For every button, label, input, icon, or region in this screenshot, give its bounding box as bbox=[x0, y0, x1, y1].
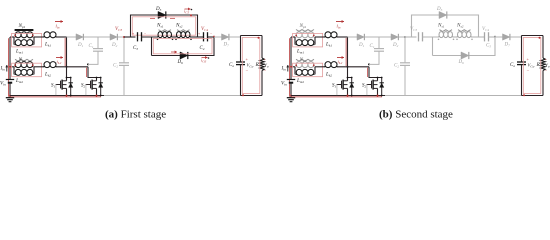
svg-text:D2: D2 bbox=[111, 43, 118, 48]
wire: C4 to node Y bbox=[489, 36, 496, 38]
current arrow I_in bbox=[287, 65, 289, 72]
svg-text:Co: Co bbox=[229, 63, 234, 68]
secondary winding Ns1 bbox=[440, 30, 453, 32]
wire: phase-2 row to S2 bbox=[337, 66, 369, 68]
wire: ground rail (active part) bbox=[291, 95, 385, 97]
wire: D7 to load bbox=[510, 36, 521, 38]
transistor S1 body diode bbox=[67, 77, 71, 79]
wire: load box bottom bbox=[241, 95, 263, 97]
output capacitor Co bbox=[240, 36, 242, 62]
capacitor C3 bbox=[418, 32, 420, 41]
current loop around N1/L1 bbox=[293, 33, 323, 47]
secondary winding Ns1 bbox=[159, 30, 172, 32]
svg-text:(a) First stage: (a) First stage bbox=[105, 109, 166, 121]
svg-text:C4: C4 bbox=[200, 46, 205, 51]
transistor S2 gate lead bbox=[86, 84, 91, 86]
svg-text:+: + bbox=[132, 32, 134, 36]
diode D6 bbox=[461, 52, 469, 59]
wire: phase-2 row start bbox=[10, 66, 14, 68]
output capacitor Co bbox=[521, 36, 523, 62]
node Y bbox=[494, 36, 496, 38]
wire: D2 to node X bbox=[118, 36, 124, 38]
ground bbox=[9, 96, 11, 98]
leakage inductor Lk1 bbox=[44, 32, 50, 38]
svg-text:C2: C2 bbox=[113, 64, 118, 69]
svg-text:VC3: VC3 bbox=[115, 27, 122, 32]
transistor S1 symbol bbox=[60, 81, 62, 89]
transistor S2 gate lead bbox=[367, 84, 372, 86]
lower cell box wires bbox=[152, 37, 215, 56]
wire: phase-1 node to D1 bbox=[67, 36, 77, 38]
wire: node X to C3 bbox=[124, 36, 136, 38]
wire: input left vertical bbox=[290, 37, 292, 79]
magnetic core (dashed) of N1 bbox=[296, 30, 314, 32]
svg-text:−: − bbox=[144, 32, 146, 36]
capacitor C1 bbox=[97, 37, 99, 48]
svg-text:D7: D7 bbox=[504, 43, 511, 48]
wire: phase-2 to leakage inductor bbox=[34, 66, 44, 68]
voltage source V_in battery bbox=[287, 79, 295, 81]
svg-text:D6: D6 bbox=[177, 60, 184, 65]
leakage inductor Lk1 bbox=[325, 32, 331, 38]
red marks near D6 bbox=[171, 51, 177, 53]
wire: phase-1 to leakage inductor bbox=[315, 36, 325, 38]
svg-text:C1: C1 bbox=[89, 44, 94, 49]
magnetic core bar of N1 bbox=[15, 29, 34, 31]
svg-text:Iin: Iin bbox=[0, 67, 5, 72]
secondary winding Ns2 bbox=[458, 30, 471, 32]
current arrow i_in bbox=[55, 21, 63, 23]
wire: phase-2 row to S2 bbox=[56, 66, 88, 68]
svg-text:C3: C3 bbox=[133, 46, 138, 51]
svg-text:Iin: Iin bbox=[281, 67, 287, 72]
current arrow i_L2 bbox=[337, 57, 344, 59]
diode D2 bbox=[110, 34, 117, 40]
diode D1 bbox=[76, 34, 83, 40]
wire: load box bottom bbox=[522, 95, 544, 97]
svg-text:C2: C2 bbox=[394, 64, 399, 69]
wire: phase-1 node to D1 bbox=[348, 36, 358, 38]
transistor S1 body diode bbox=[348, 77, 352, 79]
capacitor C2 bbox=[123, 37, 125, 62]
wire: Ns2 to C4 bbox=[471, 36, 485, 38]
diode D6 bbox=[180, 52, 188, 59]
svg-text:D5: D5 bbox=[155, 7, 162, 12]
svg-text:−: − bbox=[545, 69, 548, 74]
svg-text:S2: S2 bbox=[362, 83, 367, 88]
wire: Ns1 to Ns2 bbox=[453, 36, 458, 38]
wire: S2 drain column bbox=[369, 67, 378, 78]
wire: ground rail (inactive part) bbox=[104, 95, 241, 97]
wire: phase-1 row start bbox=[10, 36, 14, 38]
wire: D1 to D2 bbox=[84, 36, 110, 38]
capacitor C1 bbox=[378, 37, 380, 48]
magnetizing inductor L2 bbox=[15, 69, 21, 75]
transistor S2 body diode bbox=[378, 77, 382, 79]
svg-text:+: + bbox=[198, 32, 200, 36]
wire: node Y to D7 bbox=[495, 36, 503, 38]
transistor S2 body diode bbox=[97, 77, 101, 79]
voltage source V_in battery bbox=[6, 79, 14, 81]
current arrow I_in bbox=[6, 65, 8, 72]
diode D5 bbox=[158, 11, 166, 18]
winding N1 branch verticals bbox=[13, 37, 15, 45]
wire: ground rail (active part) bbox=[10, 95, 104, 97]
capacitor C3 bbox=[137, 32, 139, 41]
upper cell box wires bbox=[412, 15, 479, 37]
diode D7 bbox=[503, 34, 510, 40]
diode D5 bbox=[439, 11, 447, 18]
svg-text:D2: D2 bbox=[392, 43, 399, 48]
wire: D7 to load bbox=[229, 36, 240, 38]
current arrow i_in bbox=[336, 21, 344, 23]
wire: load box top bbox=[241, 35, 263, 37]
current loop in upper cell bbox=[132, 17, 195, 35]
ground bbox=[290, 96, 292, 98]
wire: phase-1 row start bbox=[291, 36, 295, 38]
wire: S1 drain column bbox=[347, 37, 349, 78]
leakage inductor Lk2 bbox=[325, 62, 331, 68]
diode D2 bbox=[391, 34, 398, 40]
svg-text:D1: D1 bbox=[358, 43, 365, 48]
load resistor R bbox=[261, 36, 263, 59]
wire: ground rail (inactive part) bbox=[385, 95, 522, 97]
capacitor C4 bbox=[203, 32, 205, 41]
wire: C3 to Ns1 bbox=[142, 36, 159, 38]
current loop around N2/L2 bbox=[293, 63, 323, 76]
wire: D1 to D2 bbox=[365, 36, 391, 38]
coupled winding N1 bbox=[15, 32, 21, 38]
svg-text:D1: D1 bbox=[77, 43, 84, 48]
svg-text:S2: S2 bbox=[81, 83, 86, 88]
secondary winding Ns2 bbox=[177, 30, 190, 32]
svg-text:S1: S1 bbox=[332, 83, 337, 88]
wire: C4 to node Y bbox=[208, 36, 215, 38]
wire: Ns2 to C4 bbox=[190, 36, 204, 38]
svg-text:S1: S1 bbox=[51, 83, 56, 88]
svg-text:C5: C5 bbox=[486, 44, 491, 49]
magnetizing inductor L1 bbox=[296, 40, 302, 46]
current loop around N2/L2 bbox=[12, 63, 42, 76]
current loop in lower cell bbox=[153, 39, 212, 54]
svg-text:iin: iin bbox=[56, 25, 60, 30]
current loop around N1/L1 bbox=[12, 33, 42, 47]
upper cell box wires bbox=[131, 15, 198, 37]
svg-text:(b) Second stage: (b) Second stage bbox=[379, 109, 453, 121]
magnetic core (dashed) of N2 bbox=[296, 59, 314, 61]
svg-text:Co: Co bbox=[510, 63, 515, 68]
magnetizing inductor L1 bbox=[15, 40, 21, 46]
red marks near D5 bbox=[150, 17, 155, 19]
transistor S2 symbol bbox=[90, 81, 92, 89]
wire: phase-2 to leakage inductor bbox=[315, 66, 325, 68]
wire: D2 to node X bbox=[399, 36, 405, 38]
svg-text:−: − bbox=[210, 32, 212, 36]
svg-text:D5: D5 bbox=[436, 7, 443, 12]
wire: phase-2 row start bbox=[291, 66, 295, 68]
node X junction bbox=[123, 36, 125, 38]
capacitor C4 bbox=[484, 32, 486, 41]
winding N2 branch verticals bbox=[13, 67, 15, 75]
wire: phase-1 to leakage inductor bbox=[34, 36, 44, 38]
node Y bbox=[213, 36, 215, 38]
svg-text:−: − bbox=[527, 69, 530, 74]
svg-text:D6: D6 bbox=[458, 60, 465, 65]
winding N1 branch verticals bbox=[294, 37, 296, 45]
coupled winding N2 bbox=[15, 62, 21, 68]
circuit (b): second stage bbox=[281, 7, 550, 102]
wire: C3 to Ns1 bbox=[423, 36, 440, 38]
current loop in load bbox=[523, 38, 541, 94]
magnetizing inductor L2 bbox=[296, 69, 302, 75]
transistor S2 symbol bbox=[371, 81, 373, 89]
lower cell box left wire bbox=[151, 37, 153, 56]
node X junction bbox=[404, 36, 406, 38]
current arrow i_L2 bbox=[56, 57, 63, 59]
lower cell box left wire bbox=[432, 37, 434, 56]
lower cell box wires bbox=[433, 37, 496, 56]
svg-text:iin: iin bbox=[337, 25, 341, 30]
wire: load box top bbox=[522, 35, 544, 37]
wire: node Y to D7 bbox=[214, 36, 222, 38]
diode D1 bbox=[357, 34, 364, 40]
current loop in load bbox=[242, 38, 259, 94]
capacitor C2 bbox=[404, 37, 406, 62]
wire: Ns1 to Ns2 bbox=[172, 36, 177, 38]
wire: phase-1 to switch node bbox=[337, 36, 348, 38]
svg-text:VC4: VC4 bbox=[201, 27, 208, 32]
transistor S1 gate lead bbox=[56, 84, 61, 86]
circuit (a): first stage bbox=[0, 7, 269, 102]
wire: phase-1 to switch node bbox=[56, 36, 67, 38]
winding N2 branch verticals bbox=[294, 67, 296, 75]
svg-text:−: − bbox=[264, 69, 267, 74]
svg-text:VC3: VC3 bbox=[410, 27, 417, 32]
diode D7 bbox=[222, 34, 229, 40]
transistor S1 symbol bbox=[341, 81, 343, 89]
svg-text:C1: C1 bbox=[370, 44, 375, 49]
wire: node X to C3 bbox=[405, 36, 417, 38]
wire: input left vertical bbox=[9, 37, 11, 79]
wire: S1 drain column bbox=[66, 37, 68, 78]
magnetic core (dashed) of N2 bbox=[15, 59, 33, 61]
svg-text:D7: D7 bbox=[223, 43, 230, 48]
load resistor R bbox=[542, 36, 544, 59]
transistor S1 gate lead bbox=[337, 84, 342, 86]
coupled winding N2 bbox=[296, 62, 302, 68]
wire: S2 drain column bbox=[88, 67, 97, 78]
leakage inductor Lk2 bbox=[44, 62, 50, 68]
svg-text:−: − bbox=[246, 69, 249, 74]
coupled winding N1 bbox=[296, 32, 302, 38]
svg-text:VC4: VC4 bbox=[482, 27, 489, 32]
